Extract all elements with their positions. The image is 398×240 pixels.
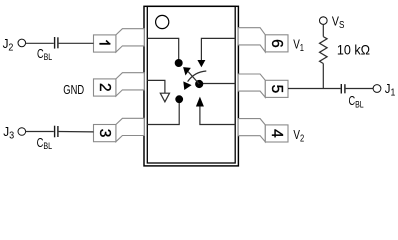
supply VS terminal (320, 17, 328, 25)
svg-text:10 kΩ: 10 kΩ (337, 41, 370, 57)
connector J2 terminal (18, 39, 26, 47)
pin 5 (238, 74, 288, 97)
wire resistor to output node (322, 64, 324, 89)
ground (160, 93, 169, 102)
svg-text:2: 2 (96, 83, 113, 92)
IC body U1 outer outline (144, 6, 238, 166)
wire pin3 to switch throw S2 (147, 99, 179, 124)
svg-text:6: 6 (268, 39, 285, 48)
node throw S2 (175, 95, 183, 103)
wire CBL to J1 (346, 88, 374, 90)
node switch common (195, 80, 203, 88)
switch toggle arc arrowhead (183, 81, 191, 90)
wire pin2 to ground arrow (147, 80, 165, 93)
resistor 10k zigzag (319, 37, 327, 64)
wire J3 to CBL (25, 131, 54, 133)
wire CBL to pin1 (59, 42, 94, 44)
pin 1 (94, 29, 145, 52)
wire VS to resistor (322, 24, 324, 36)
connector J1 terminal (373, 85, 381, 93)
pin 6 (238, 28, 288, 52)
svg-text:GND: GND (63, 83, 84, 97)
wire pin4 V2 control arrow (196, 97, 235, 125)
capacitor CBL (output) (341, 84, 345, 94)
wire pin5 to output node (288, 88, 341, 90)
connector J3 terminal (18, 128, 26, 136)
switch wiper arm (188, 72, 199, 84)
pin 1 number (99, 40, 110, 45)
pin 3 (94, 118, 145, 141)
pin-1 indicator circle (156, 15, 169, 28)
wire pin1 to switch throw S1 (147, 38, 179, 63)
node throw S1 (175, 59, 183, 67)
switch toggle arc (188, 71, 207, 82)
pin 4 (238, 119, 288, 142)
IC body U1 inner outline (147, 6, 235, 163)
wire pin5 to switch common (199, 83, 235, 85)
switch wiper arrowhead (183, 67, 191, 75)
svg-text:3: 3 (96, 129, 113, 138)
pin 2 (94, 73, 145, 96)
capacitor CBL (J3 input) (55, 126, 58, 138)
wire J2 to CBL (25, 42, 54, 44)
svg-text:5: 5 (268, 85, 285, 94)
wire pin6 V1 control arrow (197, 38, 235, 67)
capacitor CBL (J2 input) (55, 37, 58, 49)
wire CBL to pin3 (59, 131, 94, 133)
svg-text:4: 4 (268, 129, 285, 138)
